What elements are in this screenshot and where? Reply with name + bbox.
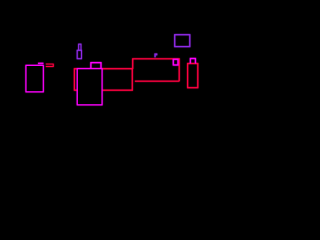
- device D1 neck (magenta top tab): [190, 59, 195, 64]
- label glyph (small violet mark): [154, 53, 157, 57]
- cell B2 tab (top notch): [91, 63, 101, 69]
- cell B1 tab (small filled magenta bar): [38, 63, 44, 64]
- via V1 body (purple bottle body): [77, 50, 81, 58]
- via V1 neck: [79, 44, 81, 50]
- cell B2 (big magenta box, black fill): [77, 69, 102, 105]
- cell B1 (left magenta box): [26, 65, 43, 91]
- wire rect R1 (red net outline center): [74, 69, 132, 91]
- contact M1 (small magenta box on C1 corner): [173, 59, 178, 65]
- pin P1 (red open rectangle right of B1): [46, 64, 54, 66]
- box C1 bottom edge: [135, 80, 179, 82]
- box C1 (crimson region top right): [133, 59, 180, 81]
- device D1 body (crimson bottle right): [188, 64, 198, 88]
- box P2 (purple rectangle top right): [175, 35, 190, 47]
